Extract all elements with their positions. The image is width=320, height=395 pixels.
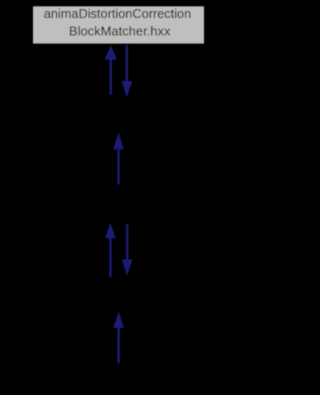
svg-text:BlockMatcher.hxx: BlockMatcher.hxx xyxy=(69,24,171,38)
svg-text:animaDistortionCorrection: animaDistortionCorrection xyxy=(44,7,192,21)
